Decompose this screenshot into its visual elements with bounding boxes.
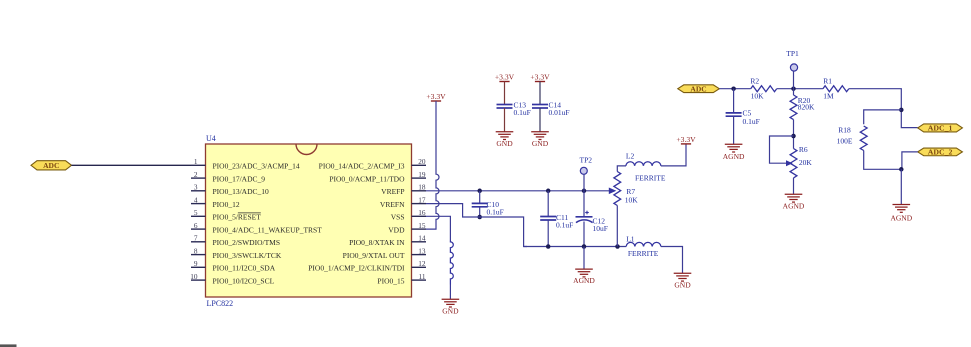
ground AGND (rail) — [575, 268, 593, 270]
svg-text:11: 11 — [418, 272, 425, 281]
svg-text:GND: GND — [442, 307, 459, 316]
wire C14 to GND — [539, 108, 541, 132]
arrow R6 wiper — [786, 160, 793, 166]
svg-text:9: 9 — [194, 259, 198, 268]
svg-text:GND: GND — [532, 139, 549, 148]
node R20-R6 wiper — [791, 134, 796, 139]
pin 18 stub — [412, 190, 427, 192]
wire TP1 stem — [793, 71, 795, 89]
svg-text:6: 6 — [194, 221, 198, 230]
wire +3.3V to C14 — [539, 82, 541, 105]
pin 10 stub — [191, 279, 206, 281]
svg-text:PIO0_9/XTAL OUT: PIO0_9/XTAL OUT — [343, 251, 405, 260]
pin 13 stub — [412, 254, 427, 256]
inductor L2 — [626, 162, 661, 166]
wire L2 to +3.3V — [661, 145, 686, 166]
svg-text:10: 10 — [190, 272, 198, 281]
svg-text:+3.3V: +3.3V — [530, 73, 550, 82]
wire R18 bottom — [864, 151, 902, 170]
svg-text:100E: 100E — [837, 137, 853, 146]
svg-text:10K: 10K — [751, 92, 765, 101]
power +3.3V (C13) — [499, 81, 509, 83]
svg-text:PIO0_14/ADC_2/ACMP_I3: PIO0_14/ADC_2/ACMP_I3 — [319, 162, 405, 171]
node rail-R7 — [615, 244, 620, 249]
port ADC (input) — [31, 161, 72, 170]
svg-text:1: 1 — [194, 157, 198, 166]
capacitor C10 — [472, 202, 488, 204]
svg-text:19: 19 — [418, 170, 426, 179]
wire L1 to GND — [661, 247, 683, 274]
ground AGND (right) — [893, 204, 911, 206]
wire R7 bottom — [616, 206, 618, 247]
wire VREFN — [426, 204, 527, 247]
svg-text:R2: R2 — [750, 76, 759, 85]
power +3.3V (L2) — [681, 143, 691, 145]
svg-text:TP2: TP2 — [580, 156, 593, 165]
wire VREFP rail — [426, 190, 611, 192]
svg-text:VREFN: VREFN — [380, 200, 405, 209]
pin 14 stub — [412, 241, 427, 243]
wire R7 top — [617, 166, 626, 172]
svg-text:16: 16 — [418, 208, 426, 217]
port ADC_2 — [918, 148, 963, 156]
wire C12 top — [583, 191, 585, 217]
wire VSS — [426, 216, 450, 240]
svg-text:1M: 1M — [823, 92, 834, 101]
svg-text:0.1uF: 0.1uF — [556, 220, 573, 229]
sheet border mark — [0, 344, 17, 347]
inductor L1 — [626, 242, 661, 246]
svg-text:PIO0_2/SWDIO/TMS: PIO0_2/SWDIO/TMS — [213, 238, 281, 247]
arrow R7 wiper — [609, 188, 617, 195]
svg-text:2: 2 — [194, 170, 198, 179]
svg-text:TP1: TP1 — [786, 49, 799, 58]
node TP1-R20 — [791, 86, 796, 91]
svg-text:PIO0_8/XTAK IN: PIO0_8/XTAK IN — [349, 238, 405, 247]
wire TP1 to R20 — [793, 89, 795, 95]
svg-text:VSS: VSS — [391, 213, 405, 222]
ground GND (VSS) — [442, 298, 460, 300]
pin 9 stub — [191, 266, 206, 268]
svg-text:820K: 820K — [798, 103, 815, 112]
svg-text:ADC_2: ADC_2 — [928, 148, 953, 157]
svg-text:PIO0_5/: PIO0_5/ — [213, 213, 239, 222]
node rail-C12 — [582, 244, 587, 249]
wire +3.3V to C13 — [504, 82, 506, 105]
ground GND (C14) — [531, 131, 549, 133]
ground GND (L1) — [674, 272, 692, 274]
svg-text:20: 20 — [418, 157, 426, 166]
wire C10 bottom — [479, 207, 481, 217]
svg-text:ADC: ADC — [43, 161, 59, 170]
svg-text:+3.3V: +3.3V — [426, 92, 446, 101]
wire AGND rail — [524, 246, 627, 248]
pin 12 stub — [412, 266, 427, 268]
resistor R2 — [751, 86, 777, 92]
ground GND (C13) — [496, 131, 514, 133]
wire R6 to AGND — [793, 178, 795, 194]
node R18-AGND — [899, 167, 904, 172]
pin 16 stub — [412, 215, 427, 217]
node VREFP-C10 — [477, 189, 482, 194]
wire bead to GND — [449, 285, 451, 300]
pin 15 stub — [412, 228, 427, 230]
svg-text:PIO0_12: PIO0_12 — [213, 200, 240, 209]
wire AGND stem (right) — [900, 169, 902, 204]
IC U4 LPC822 body — [206, 144, 412, 297]
svg-text:5: 5 — [194, 208, 198, 217]
svg-text:0.01uF: 0.01uF — [549, 108, 570, 117]
svg-text:20K: 20K — [799, 158, 813, 167]
svg-text:PIO0_11/I2C0_SDA: PIO0_11/I2C0_SDA — [213, 264, 276, 273]
svg-text:18: 18 — [418, 183, 426, 192]
resistor R6 (pot) — [790, 149, 797, 178]
svg-text:R6: R6 — [799, 145, 808, 154]
svg-text:AGND: AGND — [890, 213, 912, 222]
svg-text:15: 15 — [418, 221, 426, 230]
wire TP2 stem — [583, 174, 585, 191]
svg-text:VDD: VDD — [388, 225, 405, 234]
svg-text:AGND: AGND — [723, 152, 745, 161]
svg-text:10K: 10K — [625, 195, 639, 204]
svg-text:VREFP: VREFP — [381, 187, 404, 196]
power +3.3V (VDD) — [431, 100, 441, 102]
wire C13 to GND — [504, 108, 506, 132]
svg-text:+3.3V: +3.3V — [495, 73, 515, 82]
wire ADC to pin1 — [72, 164, 192, 166]
svg-text:17: 17 — [418, 195, 426, 204]
svg-text:PIO0_3/SWCLK/TCK: PIO0_3/SWCLK/TCK — [213, 251, 282, 260]
svg-text:+3.3V: +3.3V — [676, 135, 696, 144]
wire R6 wiper loop — [770, 136, 794, 163]
node C10-VREFN — [477, 215, 482, 220]
pin 11 stub — [412, 279, 427, 281]
capacitor C14 — [532, 104, 548, 106]
svg-text:4: 4 — [194, 195, 198, 204]
wire R18 top — [864, 110, 902, 124]
port ADC_1 — [918, 124, 963, 132]
pin 5 stub — [191, 215, 206, 217]
svg-text:ADC_1: ADC_1 — [928, 124, 953, 133]
resistor R7 — [614, 172, 621, 206]
pin 2 stub — [191, 177, 206, 179]
node VREFP-C11 — [546, 189, 551, 194]
svg-text:0.1uF: 0.1uF — [743, 117, 760, 126]
svg-text:8: 8 — [194, 246, 198, 255]
capacitor C12 (polarized) — [576, 216, 593, 218]
svg-text:R1: R1 — [823, 77, 832, 86]
svg-text:12: 12 — [418, 259, 426, 268]
svg-text:PIO0_10/I2C0_SCL: PIO0_10/I2C0_SCL — [213, 276, 275, 285]
svg-text:PIO0_4/ADC_11_WAKEUP_TRST: PIO0_4/ADC_11_WAKEUP_TRST — [213, 225, 323, 234]
ground AGND (C5) — [725, 143, 743, 145]
svg-text:ADC: ADC — [690, 84, 706, 93]
pin 20 stub — [412, 164, 427, 166]
svg-text:PIO0_17/ADC_9: PIO0_17/ADC_9 — [213, 174, 266, 183]
wire ADC to R2 — [719, 88, 750, 90]
svg-text:R18: R18 — [838, 126, 851, 135]
wire R20 to R6 — [793, 120, 795, 149]
svg-text:PIO0_0/ACMP_11/TDO: PIO0_0/ACMP_11/TDO — [329, 174, 405, 183]
svg-text:RESET: RESET — [238, 213, 261, 222]
node rail-C11 — [546, 244, 551, 249]
capacitor C13 — [497, 104, 513, 106]
port ADC (right) — [678, 85, 720, 93]
wire ADC_2 — [902, 152, 918, 169]
ferrite bead (VSS) — [450, 241, 453, 285]
svg-text:14: 14 — [418, 234, 426, 243]
resistor R18 — [860, 126, 867, 151]
wire C10 top — [479, 191, 481, 204]
svg-text:13: 13 — [418, 246, 426, 255]
svg-text:0.1uF: 0.1uF — [487, 207, 504, 216]
svg-text:GND: GND — [674, 281, 691, 290]
svg-text:L1: L1 — [626, 234, 635, 243]
svg-text:PIO0_13/ADC_10: PIO0_13/ADC_10 — [213, 187, 270, 196]
pin 6 stub — [191, 228, 206, 230]
wire R2 to R1 — [777, 88, 823, 90]
pin 19 stub — [412, 177, 427, 179]
power +3.3V (C14) — [535, 81, 545, 83]
pin 8 stub — [191, 254, 206, 256]
pin 3 stub — [191, 190, 206, 192]
svg-text:PIO0_1/ACMP_I2/CLKIN/TDI: PIO0_1/ACMP_I2/CLKIN/TDI — [308, 264, 405, 273]
pin 4 stub — [191, 203, 206, 205]
node VREFP-TP2 — [582, 189, 587, 194]
pin 1 stub — [191, 164, 206, 166]
svg-text:3: 3 — [194, 183, 198, 192]
wire +3.3V to pin15 VDD with hops — [426, 101, 439, 229]
resistor R1 — [823, 86, 849, 92]
svg-text:AGND: AGND — [573, 276, 595, 285]
ground AGND (R6) — [785, 193, 803, 195]
svg-text:AGND: AGND — [783, 202, 805, 211]
wire C11 bottom — [547, 220, 549, 247]
pin 17 stub — [412, 203, 427, 205]
wire AGND stem — [583, 247, 585, 270]
svg-text:U4: U4 — [206, 134, 216, 143]
svg-text:L2: L2 — [626, 152, 635, 161]
svg-text:FERRITE: FERRITE — [635, 173, 666, 182]
capacitor C5 — [733, 89, 735, 113]
pin 7 stub — [191, 241, 206, 243]
node R1-R18 — [899, 108, 904, 113]
svg-text:GND: GND — [496, 139, 513, 148]
node ADC-C5 — [731, 86, 736, 91]
resistor R20 — [790, 95, 797, 120]
capacitor C11 — [540, 216, 556, 218]
svg-text:FERRITE: FERRITE — [628, 249, 659, 258]
svg-text:PIO0_23/ADC_3/ACMP_14: PIO0_23/ADC_3/ACMP_14 — [213, 162, 300, 171]
svg-text:PIO0_15: PIO0_15 — [377, 276, 404, 285]
svg-text:0.1uF: 0.1uF — [514, 108, 531, 117]
svg-text:7: 7 — [194, 234, 198, 243]
svg-text:LPC822: LPC822 — [207, 299, 234, 308]
wire C12 bottom — [583, 222, 585, 247]
wire C11 top — [547, 191, 549, 217]
svg-text:10uF: 10uF — [593, 224, 608, 233]
wire R1 to ADC_1 — [849, 89, 918, 128]
